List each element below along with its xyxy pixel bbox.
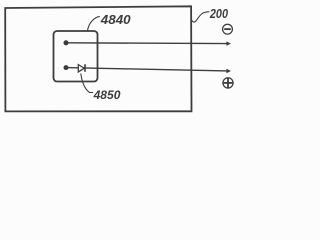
- svg-text:200: 200: [209, 7, 228, 21]
- svg-text:4840: 4840: [100, 13, 131, 27]
- svg-text:4850: 4850: [93, 89, 121, 102]
